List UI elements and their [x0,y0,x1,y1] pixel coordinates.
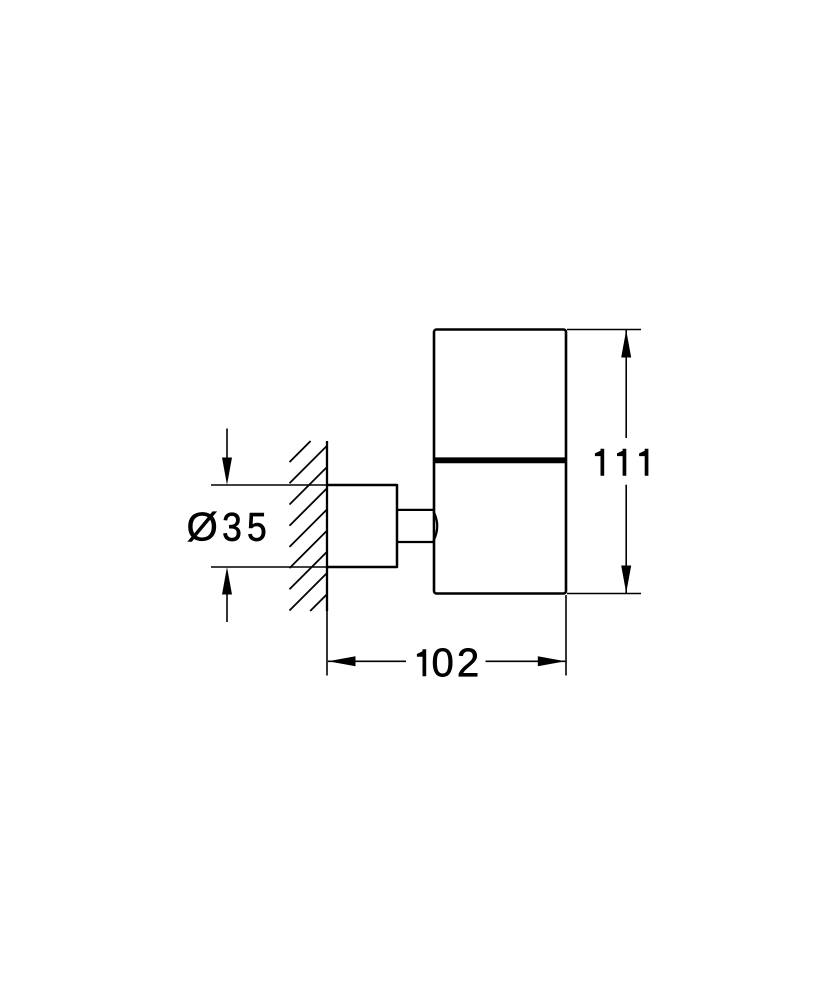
holder body [434,330,566,594]
mounting post top line [397,509,434,511]
dimension text 111 [595,449,649,476]
dimension line 111 upper segment [625,330,627,438]
arrow 111 bottom (pointing down) [621,566,631,594]
dimension text O35 [188,512,265,542]
wall hatching [290,441,328,611]
mounting post bottom line [397,541,434,543]
arrow O35 top stem [226,429,228,460]
extension line right for 102 [565,595,567,676]
dimension line 102 left segment [328,660,406,662]
extension line diameter top (O35) [211,484,327,486]
extension line top for 111 [567,329,641,331]
dimension text 102 [417,648,477,676]
extension line bottom for 111 [567,593,641,595]
escutcheon (wall flange) [327,485,397,567]
mounting post rounded tip arc [434,512,438,541]
arrow 111 top (pointing up) [621,330,631,358]
holder joint line (thick divider) [434,457,566,463]
dimension line 111 lower segment [625,485,627,593]
arrow O35 top (pointing down) [222,458,232,486]
dimension line 102 right segment [486,660,566,662]
arrow O35 bottom (pointing up) [222,567,232,595]
arrow O35 bottom stem [226,593,228,622]
extension line diameter bottom (O35) [211,566,327,568]
arrow 102 right (pointing right) [538,656,566,666]
extension line left of 102 (below wall) [326,611,328,676]
wall section line [326,441,328,611]
arrow 102 left (pointing left) [328,656,356,666]
